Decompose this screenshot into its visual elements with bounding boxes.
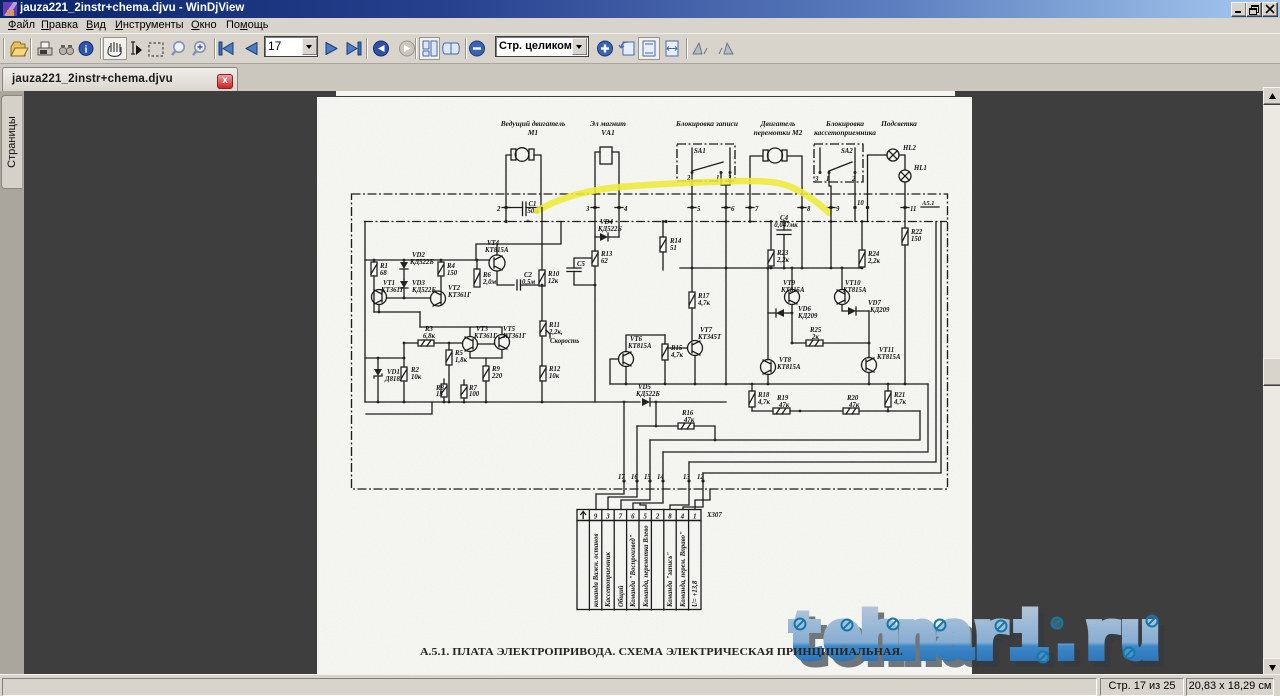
wire pin3 rail down [594, 208, 596, 237]
wire rail x542 lower [541, 336, 543, 402]
wire pin12 to connector 4 [683, 481, 703, 510]
wire M1 right lead [534, 155, 541, 208]
wire R25 leads [792, 342, 869, 344]
wire R23 leads [770, 222, 772, 269]
transistor VT3 [463, 326, 498, 352]
wire VD7 to VT11 collector [868, 311, 870, 358]
wire R9 bottom [485, 381, 487, 402]
wire M2 right lead to pin 8 [788, 156, 802, 208]
resistor R1 [371, 262, 388, 277]
wire long y462 [689, 222, 936, 463]
resistor R5 [446, 350, 467, 365]
status bar [0, 674, 1280, 696]
wire long y452 [663, 384, 928, 452]
wire SA2 pin1 to board pin 9 [829, 174, 831, 208]
zener VD1 [374, 358, 405, 402]
wire VT11 emitter [868, 373, 870, 385]
wire drop x663 pin14 [662, 452, 664, 481]
resistor R23 [768, 250, 789, 266]
top captions [500, 119, 917, 137]
wire R1 top [373, 260, 375, 262]
wire pin8 rail [801, 208, 803, 268]
page number combo [264, 36, 318, 57]
resistor R3 [418, 326, 435, 346]
wire pin6 rail [725, 208, 727, 384]
wire R22 leads / right rail [904, 208, 906, 384]
wire SA1 pins 1,3 to board pin 6 [721, 174, 730, 208]
node pin 9 [827, 206, 840, 213]
capacitor C5 [567, 258, 595, 285]
resistor R15 [662, 344, 683, 360]
wire drop x637 pin16 [636, 426, 638, 481]
node pin 5 [688, 206, 701, 213]
resistor R11 speed [540, 321, 579, 345]
resistor R14 [660, 237, 682, 252]
resistor R7 [461, 385, 480, 398]
transistor VT7 [688, 327, 722, 356]
wire R4 top [440, 260, 442, 262]
switch SA1 [677, 144, 735, 182]
wire drop x689 pin13 [688, 462, 690, 481]
node pin 7 [746, 206, 759, 213]
node pin 16 [631, 474, 639, 483]
wire VT10 collector [841, 268, 843, 290]
window title bar [0, 0, 1280, 18]
node pin 2 [496, 206, 510, 222]
resistor R4 [438, 262, 458, 277]
diode VD7 [842, 300, 890, 315]
resistor R10 [539, 270, 560, 286]
resistor R20 [843, 395, 860, 414]
document tab bar [0, 63, 1280, 92]
transistor VT11 [862, 347, 901, 373]
wire rail x542 [541, 208, 543, 322]
node pin 14 [657, 474, 665, 483]
motor M1 [511, 148, 534, 162]
wire mid bus y268 [680, 267, 862, 269]
wire R3 leads [404, 342, 463, 344]
node pin 6 [722, 206, 735, 213]
wire over VT4 [476, 222, 561, 261]
wire R6 top [476, 260, 478, 269]
wire main bus y384 [610, 383, 928, 385]
resistor R13 [592, 251, 613, 266]
wire VT1 emitter bus [374, 305, 420, 313]
lamp HL2 [887, 145, 916, 161]
resistor R18 [749, 391, 770, 407]
wire R15 leads [664, 335, 666, 384]
wire R2 leads [403, 343, 405, 402]
wire M2 left lead to pin 7 [750, 156, 762, 208]
resistor R2 [401, 367, 422, 381]
diode VD6 [768, 306, 818, 320]
wire step under bus [366, 402, 432, 414]
node junction on rail [504, 220, 507, 223]
wire VT3-VT5 bases [478, 343, 495, 345]
wire R17 bottom to VT7 [691, 308, 693, 340]
highlighter mark [537, 181, 829, 213]
wire pin15 to connector 7 [621, 481, 650, 510]
diode VD4 [595, 219, 622, 241]
motor M2 [763, 148, 787, 163]
zoom combo [495, 36, 589, 57]
wire R19 leads [752, 410, 843, 412]
resistor R6 [474, 269, 496, 287]
diode VD5 [635, 384, 726, 406]
wire pin5 rail [691, 208, 693, 292]
connector X307 [577, 510, 722, 611]
wire R1 bottom to VT1 [373, 276, 375, 312]
capacitor C4 [774, 215, 798, 268]
node pin 10 [853, 200, 869, 222]
wire emitters join [470, 350, 502, 367]
svg-text:А.5.1. ПЛАТА ЭЛЕКТРОПРИВОДА.: А.5.1. ПЛАТА ЭЛЕКТРОПРИВОДА. СХЕМА ЭЛЕКТ… [420, 647, 904, 658]
node pin 15 [644, 474, 652, 483]
node pin 11 [901, 206, 916, 213]
resistor R17 [689, 292, 710, 308]
resistor R19 [773, 395, 790, 414]
wire pin4 rail down [618, 208, 620, 237]
wire R20 leads [859, 410, 920, 412]
wire VT4 emitter to C2 [497, 271, 514, 285]
wire R18 leads [751, 384, 753, 411]
transistor VT4 [484, 240, 509, 271]
wire HL1 to pin 11 [904, 182, 906, 208]
switch SA2 [814, 144, 863, 183]
node A5.1 label [921, 200, 939, 207]
wire R21 leads [887, 384, 889, 411]
node pin 8 [798, 206, 811, 213]
wire collector bus y327 [420, 327, 502, 337]
wire to connector 5 [640, 503, 646, 510]
transistor VT2 [431, 285, 472, 306]
wire R13 leads [594, 237, 596, 402]
wire pin13 to connector 8 [670, 481, 689, 510]
toolbar [0, 33, 1280, 64]
wire drop x703 pin12 [702, 473, 704, 481]
diode VD3 [400, 279, 436, 298]
wire pin16 to connector 3 [608, 481, 637, 510]
wire VT9 collector [791, 268, 793, 290]
resistor R12 [540, 366, 561, 381]
inner dash-dot rail [364, 221, 947, 223]
diode VD2 [400, 252, 434, 279]
wire SA2 pin2 to board pin 10 [854, 174, 856, 208]
wire R8 R7 leads [444, 379, 464, 402]
transistor VT5 [495, 326, 527, 350]
svg-text:tehnari.ru: tehnari.ru [787, 605, 1159, 677]
wire to connector 1 [695, 489, 710, 510]
wire VT7 emitter [694, 356, 696, 385]
wire R14 leads [662, 222, 664, 271]
wire VT6 collector bus [626, 335, 665, 352]
wire M1 left lead to pin 2 [506, 155, 511, 208]
node pin 12 [697, 474, 705, 483]
wire down x420 [419, 312, 421, 327]
capacitor C2 [517, 272, 542, 290]
transistor VT9 [780, 280, 805, 305]
wire left inner rail [364, 222, 366, 403]
resistor R25 [806, 327, 823, 346]
board A5.1 outline [352, 194, 948, 489]
resistor R21 [885, 391, 906, 407]
wire R16 leads [637, 402, 715, 440]
wire long y440 [650, 411, 920, 440]
wire SA1 pin2 to board pin 5 [691, 174, 693, 208]
node pin 3 [585, 206, 599, 213]
transistor VT6 [619, 336, 652, 367]
wire drop x650 pin15 [649, 440, 651, 481]
wire VT6 leads [610, 359, 626, 384]
wire ground bus y402 [365, 401, 640, 403]
watermark tehnari.ru [779, 591, 1191, 677]
wire HL2 to HL1 [899, 155, 905, 170]
transistor VT8 [761, 357, 801, 375]
wire R4 bottom to VT2 [440, 276, 442, 291]
lamp HL1 [899, 165, 927, 182]
wire drop x624 pin17 [623, 402, 625, 481]
wire long y473 [703, 222, 941, 474]
wire upper bus of left block [365, 259, 489, 261]
wire y358 left [365, 357, 404, 359]
resistor R22 [902, 228, 923, 245]
resistor R9 [483, 366, 503, 381]
node pin 17 [618, 474, 626, 483]
resistor R16 [678, 410, 695, 429]
wire VT4 collector up [496, 244, 498, 255]
wire R24 leads [861, 222, 863, 269]
wire VT8 emitter [767, 375, 769, 385]
wire VT9 emitter down [791, 305, 793, 344]
wire VT7 base to R15 [665, 347, 688, 349]
transistor VT1 [372, 280, 405, 305]
resistor R24 [859, 250, 880, 267]
wire R5 leads [448, 343, 450, 402]
wire pin17 to connector 9 [596, 481, 624, 510]
wire VT1 base to VT2 [387, 297, 431, 299]
solenoid VA1 [595, 147, 619, 208]
wire pin9 rail [830, 208, 832, 268]
node pin 13 [683, 474, 691, 483]
wire x768 rail [767, 268, 769, 360]
wire HL2 to pin 10 node [868, 155, 888, 208]
resistor R8 [435, 384, 447, 398]
wire pin14 to connector 6 [633, 481, 663, 510]
menu bar [0, 18, 1280, 33]
svg-text:i: i [85, 45, 88, 56]
capacitor C1 [506, 201, 541, 225]
wire pin7 stub [749, 208, 751, 222]
node pin 4 [615, 206, 628, 213]
transistor VT10 [835, 280, 867, 305]
